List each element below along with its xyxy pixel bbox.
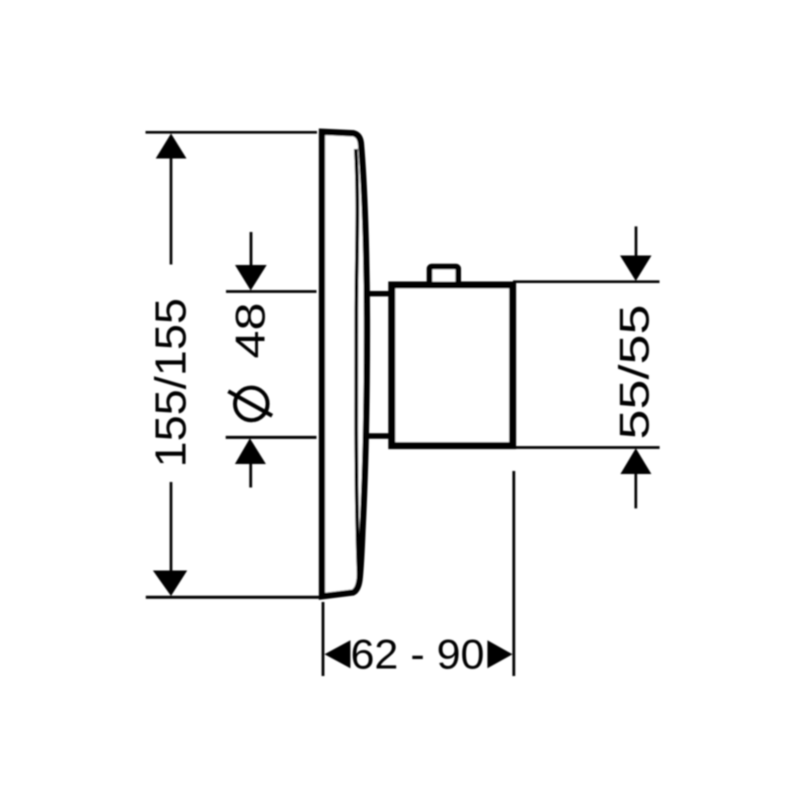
svg-text:55/55: 55/55: [611, 305, 658, 440]
svg-text:48: 48: [226, 303, 273, 359]
svg-text:155/155: 155/155: [146, 298, 195, 468]
svg-text:62 - 90: 62 - 90: [351, 631, 485, 678]
